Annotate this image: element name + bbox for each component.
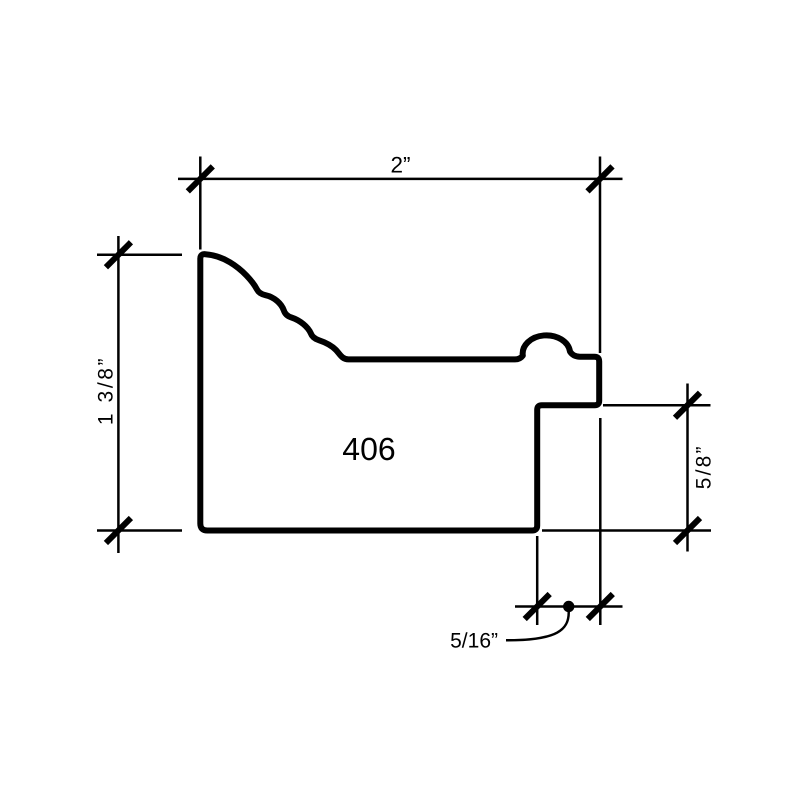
svg-text:2”: 2”	[390, 153, 410, 178]
dimension line 1-3/8	[117, 236, 120, 553]
tick bottom 5/8	[675, 518, 700, 543]
tick right 2in	[588, 166, 613, 191]
leader curve 5/16	[506, 612, 569, 641]
dot on 5/16 dim	[563, 601, 574, 612]
tick top 1-3/8	[106, 242, 131, 267]
tick right 5/16	[588, 594, 613, 619]
tick left 2in	[188, 166, 213, 191]
svg-text:1 3/8”: 1 3/8”	[95, 356, 118, 425]
extension line right of 5/16 dim	[599, 418, 602, 625]
extension line right of 2in dim	[599, 157, 602, 354]
extension line left of 5/16 dim	[536, 536, 539, 625]
extension line bottom of 5/8 dim	[542, 529, 711, 532]
extension line top of 5/8 dim	[603, 404, 711, 407]
extension line bottom of 1-3/8 dim	[97, 529, 182, 532]
dimension line 2in	[178, 178, 623, 181]
svg-text:5/16”: 5/16”	[450, 630, 498, 653]
dimension line 5/8	[686, 384, 689, 552]
extension line left of 2in dim	[199, 157, 202, 250]
tick left 5/16	[525, 594, 550, 619]
tick bottom 1-3/8	[106, 518, 131, 543]
svg-text:5/8”: 5/8”	[693, 444, 716, 489]
tick top 5/8	[675, 393, 700, 418]
moulding profile outline 406	[200, 254, 599, 530]
dimension line 5/16	[515, 605, 623, 608]
svg-text:406: 406	[342, 431, 395, 467]
extension line top of 1-3/8 dim	[97, 254, 182, 257]
